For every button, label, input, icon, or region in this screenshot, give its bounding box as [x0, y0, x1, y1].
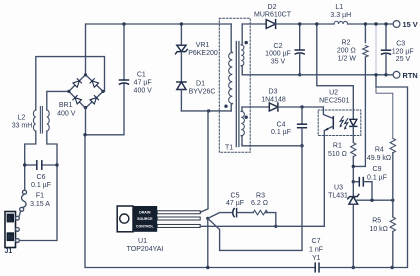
svg-text:R4: R4	[375, 147, 384, 154]
svg-text:0.1 µF: 0.1 µF	[271, 129, 291, 136]
resistor R4	[390, 138, 395, 152]
svg-text:P6KE200: P6KE200	[188, 50, 218, 57]
svg-text:15 V: 15 V	[403, 20, 418, 29]
svg-text:BYV26C: BYV26C	[189, 88, 216, 95]
U1 TOP204YAI package	[117, 206, 200, 232]
svg-text:400 V: 400 V	[57, 110, 76, 117]
T1 primary winding	[231, 24, 232, 53]
svg-text:D1: D1	[196, 81, 205, 88]
diode D3	[269, 103, 278, 111]
wire: source return to bias/C4	[208, 218, 302, 250]
svg-text:C6: C6	[37, 174, 46, 181]
capacitor C1	[123, 24, 125, 80]
wire: drain node row	[181, 110, 231, 112]
T1 secondary winding	[240, 24, 243, 45]
svg-text:NEC2501: NEC2501	[319, 97, 349, 104]
wire: AC input lower from L2 right to bridge left corner	[47, 91, 69, 110]
resistor R5	[392, 200, 394, 217]
svg-text:J1: J1	[5, 248, 13, 255]
wire: top DC+ rail primary side	[86, 24, 232, 75]
svg-text:C1: C1	[137, 72, 146, 79]
L2 core lines	[39, 107, 41, 134]
svg-text:25 V: 25 V	[396, 56, 411, 63]
inductor L1	[334, 21, 348, 24]
wire: R3 to control line	[266, 213, 276, 227]
svg-text:D2: D2	[268, 4, 277, 11]
bridge BR1 diamond	[69, 75, 103, 108]
optocoupler U2 dashed box	[318, 110, 361, 136]
capacitor C9	[353, 181, 359, 183]
resistor R2	[364, 24, 366, 43]
capacitor C5	[233, 209, 237, 217]
svg-text:0.1 µF: 0.1 µF	[367, 174, 387, 181]
svg-text:6.2 Ω: 6.2 Ω	[251, 200, 268, 207]
svg-text:C5: C5	[231, 192, 240, 199]
wire: LED anode feed from 15V	[317, 24, 354, 110]
svg-text:D3: D3	[269, 89, 278, 96]
svg-text:3.3 µH: 3.3 µH	[330, 12, 351, 19]
opto transistor	[323, 107, 333, 119]
node: bridge minus junction	[83, 133, 86, 136]
svg-text:1000 µF: 1000 µF	[265, 51, 291, 58]
svg-text:L2: L2	[18, 114, 26, 121]
svg-text:1/2 W: 1/2 W	[338, 56, 357, 63]
svg-text:49.9 kΩ: 49.9 kΩ	[367, 155, 391, 162]
svg-text:N: N	[8, 234, 13, 241]
wire: source pin node	[206, 217, 209, 220]
svg-text:U3: U3	[334, 185, 343, 192]
node: bridge corner dots	[84, 73, 87, 76]
svg-text:C7: C7	[312, 238, 321, 245]
bridge diode top-left	[73, 79, 81, 87]
svg-text:R1: R1	[333, 143, 342, 150]
svg-text:3.15 A: 3.15 A	[30, 201, 50, 208]
transformer T1 dashed box	[219, 18, 250, 152]
wire: D2 cathode to 15V rail	[276, 23, 334, 25]
diode D1	[177, 82, 186, 90]
bridge diode bottom-left	[73, 96, 81, 104]
wire: source to C5	[208, 213, 232, 219]
bridge diode bottom-right	[90, 96, 98, 104]
svg-text:TOP204YAI: TOP204YAI	[127, 246, 164, 253]
svg-text:SOURCE: SOURCE	[137, 217, 153, 221]
node: primary phase dot	[224, 105, 227, 108]
svg-text:TL431: TL431	[328, 192, 348, 199]
svg-text:33 mH: 33 mH	[12, 122, 33, 129]
resistor R1	[351, 143, 356, 157]
terminal RTN	[393, 71, 400, 78]
bridge diode top-right	[90, 79, 98, 87]
connector J1	[5, 212, 19, 248]
wire: L2 left leg down to C6/F1	[25, 131, 36, 190]
svg-text:C3: C3	[396, 41, 405, 48]
diode D2	[266, 20, 275, 29]
svg-text:F1: F1	[36, 192, 44, 199]
capacitor C7 Y-cap on bottom rail	[315, 263, 319, 272]
svg-text:DRAIN: DRAIN	[139, 210, 151, 214]
svg-text:200 Ω: 200 Ω	[337, 47, 356, 54]
svg-text:0.1 µF: 0.1 µF	[31, 182, 51, 189]
svg-text:120 µF: 120 µF	[392, 48, 414, 55]
wire: AC input upper from L2 left to bridge right corner	[36, 57, 105, 110]
svg-text:U2: U2	[329, 89, 338, 96]
wire: bias winding bottom return	[242, 144, 302, 147]
wire: drain vertical to U1 drain lead	[201, 111, 208, 212]
node: secondary phase dot	[245, 41, 248, 44]
wire: secondary top to D2	[242, 23, 266, 25]
capacitor C2	[299, 24, 301, 50]
capacitor C6	[25, 164, 37, 166]
TL431 U3	[348, 194, 359, 204]
wire: RTN line from secondary bottom to RTN terminal	[242, 74, 393, 76]
svg-text:L1: L1	[335, 4, 343, 11]
opto LED	[352, 110, 354, 119]
opto light arrows	[340, 116, 348, 129]
wire: bias D3 row	[242, 106, 268, 108]
wire: C1 bottom connection	[85, 84, 124, 135]
svg-text:1N4148: 1N4148	[261, 96, 286, 103]
fuse F1	[23, 190, 27, 194]
svg-text:C4: C4	[277, 121, 286, 128]
TVS VR1	[180, 24, 182, 45]
svg-text:400 V: 400 V	[134, 88, 153, 95]
svg-text:BR1: BR1	[59, 102, 73, 109]
svg-text:C9: C9	[373, 166, 382, 173]
T1 bias winding	[240, 107, 243, 111]
svg-text:RTN: RTN	[403, 71, 418, 80]
svg-text:10 kΩ: 10 kΩ	[369, 226, 387, 233]
wire: source down to bottom rail	[207, 218, 209, 267]
svg-text:R5: R5	[372, 218, 381, 225]
wire: bridge bottom to return	[85, 108, 87, 135]
wire: control line to opto emitter	[200, 225, 324, 227]
svg-text:T1: T1	[225, 145, 233, 152]
wire: L2 right leg down to C6/N	[19, 131, 57, 241]
svg-text:L: L	[8, 216, 13, 223]
terminal 15V	[393, 21, 400, 28]
capacitor C4	[301, 107, 303, 124]
T1 core	[235, 42, 237, 147]
L2 common-mode choke windings	[33, 110, 35, 131]
svg-text:R3: R3	[256, 192, 265, 199]
svg-text:47 µF: 47 µF	[226, 200, 244, 207]
svg-text:CONTROL: CONTROL	[136, 225, 155, 229]
svg-text:MUR610CT: MUR610CT	[254, 12, 292, 19]
svg-text:Y1: Y1	[312, 255, 321, 262]
svg-text:U1: U1	[138, 238, 147, 245]
svg-text:C2: C2	[274, 43, 283, 50]
wire: 15V to R4 feed	[375, 24, 377, 74]
capacitor C3	[385, 24, 387, 50]
svg-text:47 µF: 47 µF	[134, 80, 152, 87]
resistor R3	[253, 210, 267, 215]
wire: L1 to 15V terminal	[348, 23, 393, 25]
node: bias phase dot	[245, 116, 248, 119]
svg-text:1 nF: 1 nF	[309, 246, 323, 253]
svg-text:510 Ω: 510 Ω	[328, 151, 347, 158]
svg-text:R2: R2	[342, 40, 351, 47]
wire: return bus left vertical and bottom rail to C7	[85, 135, 315, 268]
wire: RTN bus down right side	[376, 75, 408, 268]
svg-text:35 V: 35 V	[271, 58, 286, 65]
svg-text:VR1: VR1	[196, 42, 210, 49]
wire: TL431 ref row	[357, 199, 393, 201]
